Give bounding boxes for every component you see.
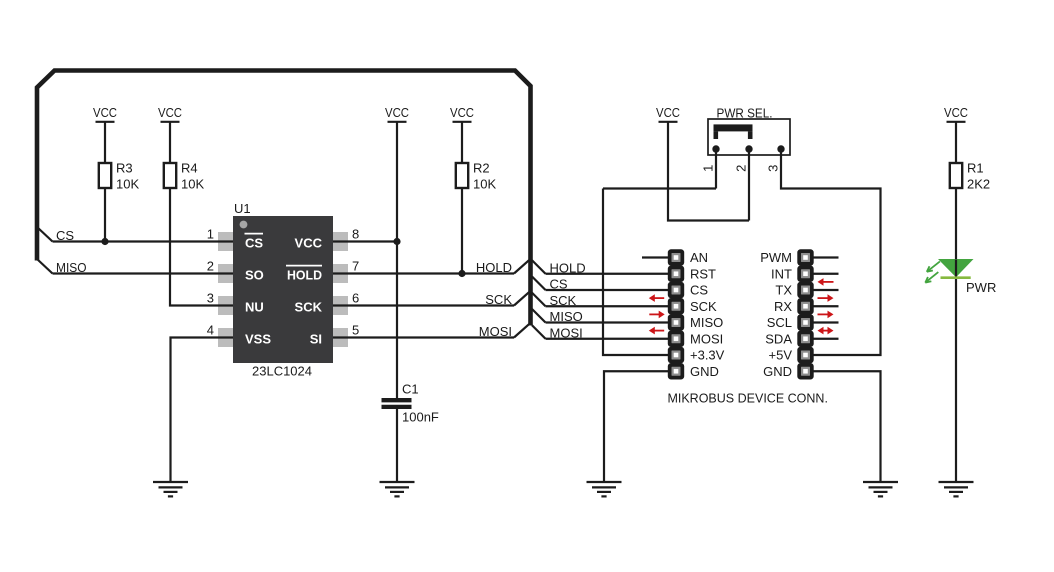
svg-text:INT: INT [771,266,792,281]
svg-text:VCC: VCC [450,105,474,120]
svg-text:8: 8 [352,227,359,242]
svg-text:SI: SI [310,332,322,347]
svg-text:VSS: VSS [245,332,271,347]
svg-text:SCK: SCK [485,292,512,307]
svg-text:6: 6 [352,291,359,306]
svg-text:GND: GND [763,364,792,379]
svg-text:10K: 10K [116,177,139,192]
svg-text:VCC: VCC [385,105,409,120]
svg-text:+3.3V: +3.3V [690,348,725,363]
svg-text:MOSI: MOSI [550,325,583,340]
svg-text:3: 3 [207,291,214,306]
svg-text:100nF: 100nF [402,410,439,425]
svg-text:2: 2 [733,165,748,172]
svg-text:SCK: SCK [690,299,717,314]
svg-text:NU: NU [245,300,264,315]
svg-text:7: 7 [352,259,359,274]
svg-text:SCK: SCK [550,293,577,308]
svg-text:VCC: VCC [158,105,182,120]
svg-text:SCL: SCL [767,315,792,330]
svg-text:PWR SEL.: PWR SEL. [717,105,773,120]
svg-text:MISO: MISO [550,309,583,324]
svg-text:R3: R3 [116,161,133,176]
svg-text:CS: CS [245,236,263,251]
svg-text:SO: SO [245,268,264,283]
svg-text:10K: 10K [473,177,496,192]
svg-text:GND: GND [690,364,719,379]
svg-text:PWR: PWR [966,280,996,295]
svg-text:SCK: SCK [295,300,323,315]
svg-text:+5V: +5V [769,348,793,363]
svg-text:10K: 10K [181,177,204,192]
svg-text:23LC1024: 23LC1024 [252,364,312,379]
svg-text:R1: R1 [967,161,984,176]
svg-text:U1: U1 [234,201,251,216]
svg-text:1: 1 [700,165,715,172]
svg-text:CS: CS [550,277,568,292]
svg-text:1: 1 [207,227,214,242]
svg-text:R2: R2 [473,161,490,176]
svg-text:2: 2 [207,259,214,274]
svg-text:4: 4 [207,323,214,338]
svg-text:AN: AN [690,250,708,265]
svg-text:PWM: PWM [760,250,792,265]
svg-text:3: 3 [765,165,780,172]
svg-text:VCC: VCC [944,105,968,120]
svg-text:VCC: VCC [656,105,680,120]
svg-text:MISO: MISO [690,315,723,330]
svg-text:MOSI: MOSI [690,331,723,346]
svg-text:C1: C1 [402,382,419,397]
svg-text:HOLD: HOLD [287,268,322,283]
svg-text:CS: CS [56,228,74,243]
svg-text:VCC: VCC [295,236,323,251]
svg-text:HOLD: HOLD [550,260,586,275]
svg-text:R4: R4 [181,161,198,176]
svg-text:MISO: MISO [56,260,87,275]
svg-text:VCC: VCC [93,105,117,120]
svg-text:CS: CS [690,283,708,298]
svg-text:SDA: SDA [765,331,792,346]
svg-text:MOSI: MOSI [479,324,512,339]
svg-text:2K2: 2K2 [967,177,990,192]
svg-text:TX: TX [775,283,792,298]
svg-text:RX: RX [774,299,792,314]
svg-text:HOLD: HOLD [476,260,512,275]
svg-text:5: 5 [352,323,359,338]
svg-text:RST: RST [690,266,716,281]
svg-text:MIKROBUS DEVICE CONN.: MIKROBUS DEVICE CONN. [667,391,828,406]
